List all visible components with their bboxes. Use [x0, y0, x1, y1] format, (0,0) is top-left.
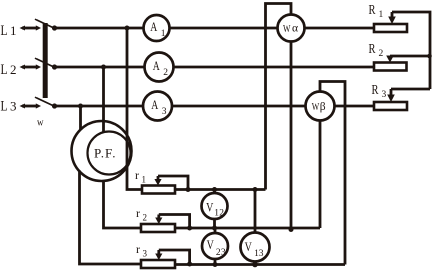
- node V12 bottom: [212, 226, 217, 231]
- svg-text:P.F.: P.F.: [94, 146, 116, 161]
- wire L2 to PF terminal: [102, 67, 105, 132]
- svg-text:R: R: [372, 82, 379, 97]
- node L1 to r1 tap: [125, 26, 130, 31]
- rheostat R3: [374, 102, 407, 110]
- svg-text:L: L: [1, 23, 8, 39]
- wire R1 wiper to star: [392, 12, 430, 56]
- wire L2 input stub: [22, 66, 37, 69]
- node L2 to PF tap: [101, 65, 106, 70]
- wire net N1 r1 to Walpha: [175, 188, 266, 191]
- switch blade S phase L2: [37, 59, 53, 66]
- wire R3 wiper to star: [391, 88, 430, 91]
- ammeter A3: [143, 92, 172, 121]
- svg-text:1: 1: [379, 10, 384, 20]
- svg-text:r: r: [135, 168, 139, 182]
- voltmeter V12: [202, 193, 228, 219]
- svg-text:3: 3: [143, 249, 148, 259]
- node V13 bottom: [252, 262, 258, 268]
- svg-text:L: L: [1, 99, 8, 115]
- svg-text:L: L: [1, 62, 8, 78]
- svg-text:3: 3: [221, 248, 226, 258]
- node V13 top: [253, 187, 258, 192]
- wire L1 to r1: [127, 28, 142, 190]
- wire V13 top stem: [254, 190, 257, 233]
- node L3 fixed contact: [36, 103, 41, 108]
- node L3 input terminal: [20, 104, 26, 109]
- wiper arrow r2: [157, 215, 160, 220]
- wire Wbeta voltage bracket: [320, 82, 345, 265]
- svg-text:V: V: [206, 199, 214, 214]
- wire L2 A2 to R2: [174, 66, 375, 69]
- svg-text:R: R: [369, 2, 376, 17]
- wire r1 wiper jumper: [158, 176, 188, 190]
- svg-text:2: 2: [143, 213, 148, 223]
- wire r3 wiper jumper: [159, 250, 190, 264]
- wire Walpha voltage bracket: [266, 4, 292, 190]
- wiper arrow r1: [157, 176, 160, 181]
- ammeter A2: [145, 53, 174, 82]
- wiper arrow R3: [390, 89, 393, 96]
- wire L3 to PF terminal: [79, 106, 82, 130]
- svg-text:W: W: [312, 101, 320, 113]
- node V23 bottom: [213, 262, 218, 267]
- label L2: [1, 62, 17, 78]
- wire V12 bottom stem: [213, 219, 216, 228]
- rheostat r3: [141, 260, 175, 268]
- wire V23 top stem: [214, 228, 217, 233]
- wire R2 wiper to star: [390, 56, 430, 89]
- svg-text:3: 3: [259, 249, 264, 259]
- wire L1 switch to A1: [55, 27, 144, 30]
- wattmeter U Wbeta: [306, 92, 335, 121]
- svg-text:W: W: [283, 23, 291, 35]
- switch blade S phase L1: [37, 20, 53, 27]
- node L3 after switch: [52, 103, 57, 108]
- wire L3 switch to A3: [55, 105, 144, 108]
- svg-text:3: 3: [10, 99, 17, 114]
- node r3 wiper junction: [187, 262, 192, 267]
- node L2 after switch: [52, 64, 57, 69]
- wire L2 switch to A2: [55, 66, 145, 69]
- wire V23 bottom stem: [214, 259, 217, 265]
- label w: [37, 117, 44, 129]
- wire net N2 r2 to Wbeta bottom: [175, 227, 320, 230]
- rheostat R2: [374, 63, 407, 71]
- switch gang bar W: [43, 23, 48, 98]
- svg-text:2: 2: [379, 49, 384, 59]
- node star junction: [427, 54, 432, 59]
- power-factor meter PF outer: [72, 121, 132, 181]
- node L1 after switch: [52, 25, 57, 30]
- wire PF to r3: [80, 171, 142, 265]
- node L3 to PF tap: [78, 104, 83, 109]
- rheostat R1: [374, 24, 407, 32]
- node L2 fixed contact: [36, 64, 41, 69]
- svg-text:w: w: [37, 117, 44, 129]
- wire PF to r2: [104, 181, 142, 228]
- svg-text:A: A: [150, 20, 157, 34]
- svg-text:3: 3: [382, 90, 387, 100]
- svg-text:A: A: [151, 98, 158, 112]
- svg-text:r: r: [136, 242, 140, 256]
- ammeter A1: [144, 15, 170, 41]
- node L1 fixed contact: [36, 25, 41, 30]
- node r1 wiper junction: [186, 187, 191, 192]
- wire L3 input stub: [22, 105, 37, 108]
- svg-text:3: 3: [162, 107, 167, 117]
- wire Walpha bottom terminal: [290, 42, 293, 229]
- label L1: [1, 23, 17, 39]
- wire L1 Walpha to R1: [305, 27, 375, 30]
- svg-text:R: R: [369, 41, 376, 56]
- node L2 input terminal: [20, 65, 26, 70]
- svg-text:2: 2: [219, 209, 224, 219]
- svg-text:2: 2: [163, 68, 168, 78]
- svg-text:α: α: [292, 23, 298, 35]
- wire r2 wiper jumper: [159, 215, 190, 229]
- svg-text:1: 1: [10, 23, 17, 38]
- rheostat r2: [141, 224, 175, 232]
- svg-text:2: 2: [10, 62, 17, 77]
- svg-text:V: V: [207, 237, 215, 252]
- svg-text:1: 1: [142, 175, 147, 185]
- wattmeter U Walpha: [278, 15, 305, 42]
- voltmeter V13: [241, 233, 270, 262]
- switch blade S phase L3: [37, 98, 53, 105]
- wiper arrow R2: [386, 56, 394, 63]
- svg-text:A: A: [153, 59, 160, 73]
- node r2 wiper junction: [187, 226, 192, 231]
- svg-text:r: r: [136, 206, 140, 220]
- wire V12 top stem: [213, 190, 216, 194]
- wire L3 A3 to Wbeta: [172, 105, 306, 108]
- wire L1 input stub: [22, 27, 37, 30]
- node V12 top: [212, 187, 217, 192]
- wire Wbeta bottom terminal: [319, 121, 322, 229]
- voltmeter V23: [202, 233, 228, 259]
- svg-text:V: V: [245, 239, 253, 254]
- wire L1 A1 to Walpha: [170, 27, 278, 30]
- node L1 input terminal: [20, 26, 26, 31]
- label L3: [1, 99, 17, 115]
- wire L3 Wbeta to R3: [335, 105, 375, 108]
- rheostat r1: [142, 186, 175, 194]
- wire net N3 r3 to Wbeta bracket: [175, 263, 345, 266]
- svg-text:β: β: [320, 101, 326, 113]
- wiper arrow R1: [391, 12, 394, 18]
- wiper arrow r3: [157, 250, 160, 255]
- power-factor meter PF inner: [88, 132, 131, 175]
- node N2 Walpha junction: [289, 227, 294, 232]
- svg-text:1: 1: [161, 29, 166, 39]
